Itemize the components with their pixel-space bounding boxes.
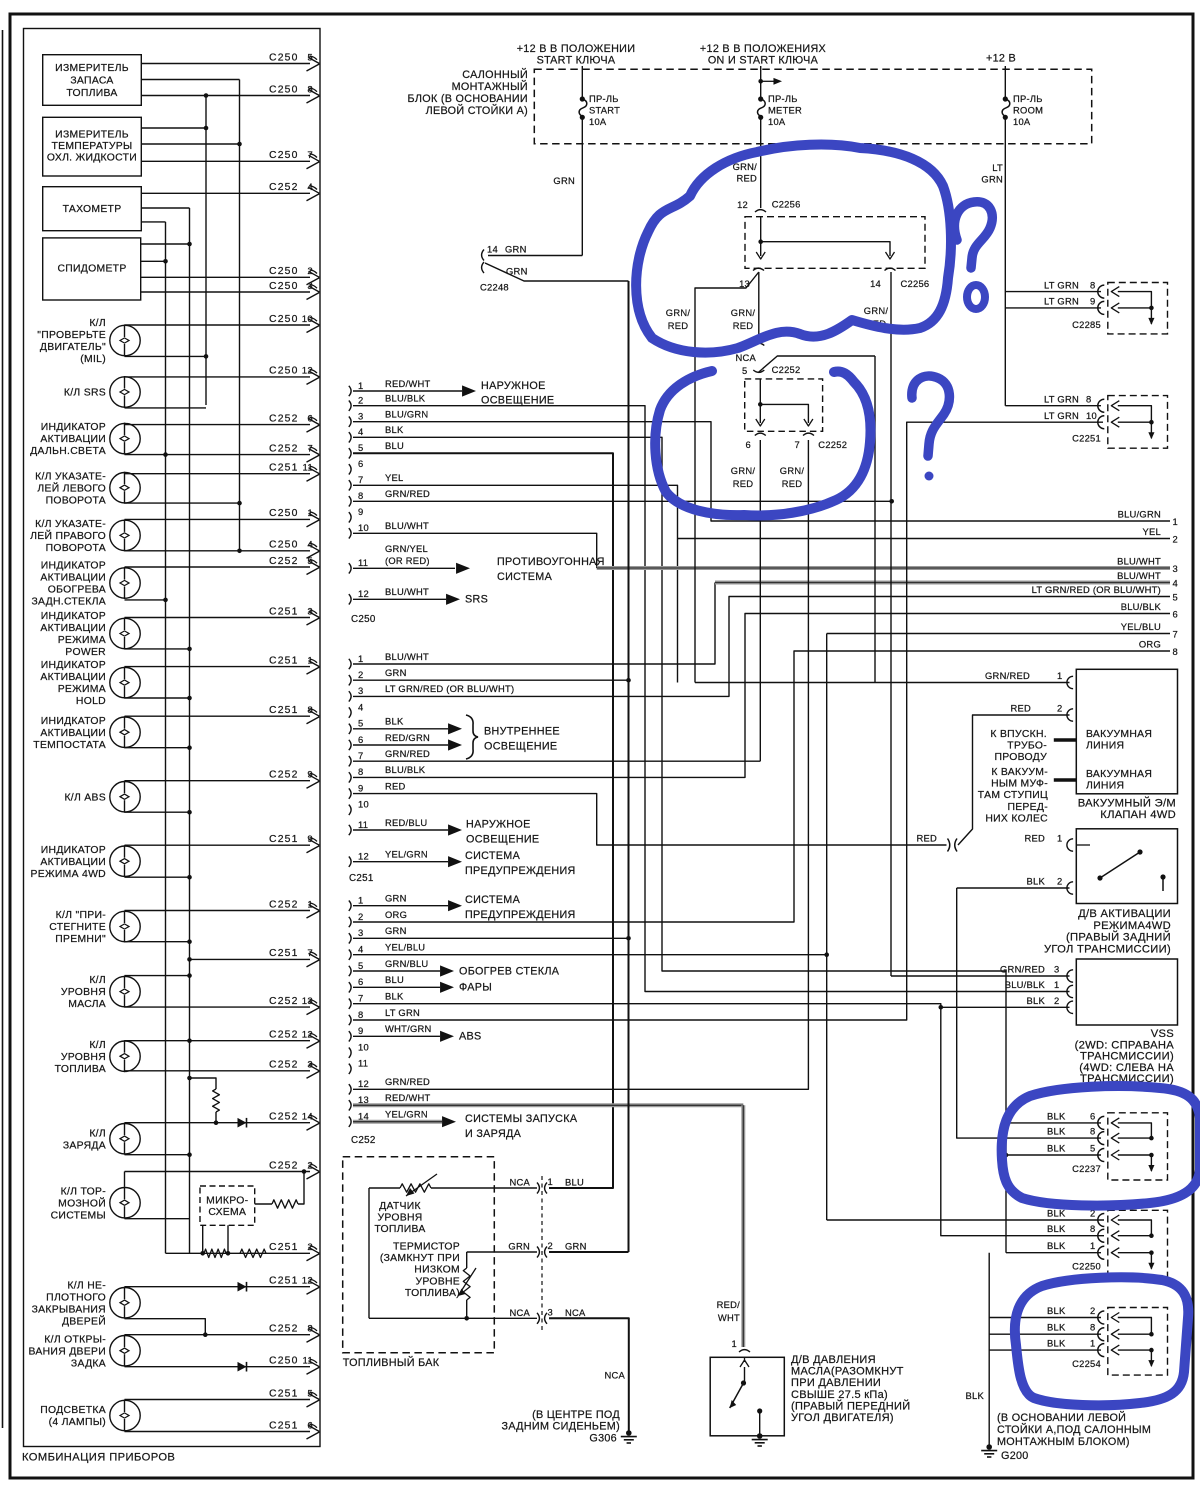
svg-text:RED: RED — [1024, 833, 1045, 844]
svg-text:1: 1 — [358, 653, 363, 664]
vertical BLK to C2250 pin8 — [941, 1007, 1104, 1235]
connector pin C250-9 — [349, 512, 351, 522]
svg-text:C2237: C2237 — [1072, 1163, 1101, 1174]
svg-text:(В ОСНОВАНИИ ЛЕВОЙ: (В ОСНОВАНИИ ЛЕВОЙ — [997, 1411, 1126, 1424]
svg-text:МОНТАЖНЫЙ: МОНТАЖНЫЙ — [452, 80, 528, 93]
svg-text:ЗАКРЫВАНИЯ: ЗАКРЫВАНИЯ — [32, 1304, 106, 1315]
svg-text:+12 В В ПОЛОЖЕНИИ: +12 В В ПОЛОЖЕНИИ — [517, 43, 636, 55]
splice RED — [948, 839, 950, 852]
svg-text:ТРУБО-: ТРУБО- — [1007, 741, 1047, 752]
svg-text:+12 В: +12 В — [986, 53, 1016, 65]
VSS pin1 BLU/BLK — [1067, 985, 1073, 997]
wire C2252 pin7 GRN/RED down — [807, 440, 809, 441]
svg-text:12: 12 — [302, 366, 313, 377]
svg-text:ИНДИКАТОР: ИНДИКАТОР — [41, 611, 106, 622]
wire C2250 pin2 from vertical — [827, 1219, 1104, 1221]
svg-text:МОЗНОЙ: МОЗНОЙ — [58, 1196, 106, 1209]
svg-text:2: 2 — [358, 669, 363, 680]
vacuum solenoid pin2 RED — [1067, 709, 1073, 721]
wire C252-9 ABS — [353, 1035, 440, 1037]
svg-text:GRN: GRN — [385, 667, 407, 678]
wire illumination bottom pin C251-6 — [125, 1431, 311, 1433]
svg-text:GRN: GRN — [385, 925, 407, 936]
connector pin C252-3 — [349, 933, 351, 943]
fuse PR-L ROOM 10A — [1004, 66, 1006, 99]
svg-text:C2250: C2250 — [1072, 1261, 1101, 1272]
wire oil-level bottom pin C252-13 — [125, 1006, 311, 1008]
svg-text:(ПРАВЫЙ ПЕРЕДНИЙ: (ПРАВЫЙ ПЕРЕДНИЙ — [791, 1399, 910, 1412]
wire right row2 YEL — [678, 538, 1171, 540]
svg-text:ТОПЛИВА): ТОПЛИВА) — [405, 1288, 460, 1299]
svg-text:ТРАНСМИССИИ): ТРАНСМИССИИ) — [1080, 1051, 1174, 1063]
svg-text:ТОПЛИВА: ТОПЛИВА — [374, 1224, 425, 1235]
C2256 internal arrows — [760, 217, 762, 256]
lamp charge — [110, 1124, 140, 1154]
svg-text:C2254: C2254 — [1072, 1358, 1101, 1369]
svg-text:(4 ЛАМПЫ): (4 ЛАМПЫ) — [49, 1417, 106, 1428]
svg-text:C252: C252 — [269, 443, 299, 454]
4WD switch box — [1076, 829, 1177, 904]
svg-text:СХЕМА: СХЕМА — [208, 1207, 246, 1218]
charge resistor branch from bus B — [187, 1076, 192, 1081]
svg-text:YEL: YEL — [385, 472, 403, 483]
dashed box C2256 — [745, 217, 925, 269]
wire defogger bottom to bus A — [125, 599, 166, 601]
svg-text:ПРОВОДУ: ПРОВОДУ — [994, 752, 1047, 763]
wire HOLD top pin C251-1 — [125, 666, 311, 668]
connector pin C251-1 — [349, 659, 351, 669]
svg-text:1: 1 — [358, 380, 363, 391]
connector C2248 pin14 — [482, 250, 484, 261]
fuel tank GRN wire — [467, 1251, 537, 1253]
wire C252-5 defogger — [353, 970, 440, 972]
wire C252-4 YEL/BLU to right row7 — [353, 954, 827, 956]
svg-text:СИСТЕМА: СИСТЕМА — [465, 850, 521, 862]
svg-text:NCA: NCA — [509, 1307, 530, 1318]
wire C251-1 BLU/WHT to right row4 — [353, 583, 715, 665]
svg-text:C250: C250 — [269, 52, 299, 63]
svg-text:НИЗКОМ: НИЗКОМ — [414, 1265, 460, 1276]
svg-text:ВАНИЯ ДВЕРИ: ВАНИЯ ДВЕРИ — [29, 1346, 106, 1357]
svg-text:LT GRN/RED (OR BLU/WHT): LT GRN/RED (OR BLU/WHT) — [1032, 584, 1161, 595]
connector pin C251-11 — [349, 825, 351, 835]
svg-text:7: 7 — [1173, 629, 1178, 640]
svg-text:К/Л УКАЗАТЕ-: К/Л УКАЗАТЕ- — [35, 519, 106, 530]
svg-text:C251: C251 — [269, 1420, 299, 1431]
svg-text:Д/В АКТИВАЦИИ: Д/В АКТИВАЦИИ — [1078, 908, 1171, 920]
resistor network row C251-2 — [166, 1252, 311, 1254]
dashed box C2285 — [1108, 283, 1168, 334]
svg-text:10: 10 — [358, 1042, 369, 1053]
wire MIL bottom to bus C — [125, 355, 207, 357]
svg-text:BLK: BLK — [1047, 1110, 1066, 1121]
svg-text:BLU/BLK: BLU/BLK — [1121, 601, 1162, 612]
wire high-beam bottom pin C252-7 — [125, 454, 311, 456]
svg-text:6: 6 — [358, 976, 363, 987]
connector C2256 pin14 lower — [885, 268, 896, 270]
svg-text:РЕЖИМА4WD: РЕЖИМА4WD — [1093, 920, 1171, 932]
svg-text:ВАКУУМНАЯ: ВАКУУМНАЯ — [1086, 729, 1152, 740]
wire illumination top pin C251-5 — [125, 1399, 311, 1401]
svg-text:C252: C252 — [269, 1030, 299, 1041]
svg-text:BLU: BLU — [565, 1177, 584, 1188]
fuel tank dashed box — [343, 1157, 495, 1353]
cluster bus C — [205, 96, 207, 406]
svg-text:BLK: BLK — [1047, 1322, 1066, 1333]
svg-text:3: 3 — [1054, 964, 1059, 975]
svg-text:1: 1 — [1090, 1338, 1095, 1349]
wire MIL top pin C250-10 — [125, 324, 311, 326]
svg-text:К/Л: К/Л — [89, 1128, 106, 1139]
svg-text:(4WD: СЛЕВА НА: (4WD: СЛЕВА НА — [1079, 1062, 1174, 1074]
wire C251-7 GRN/RED to C2252 pin6 — [353, 760, 760, 762]
wire C252-14 starting and charging systems — [353, 1120, 442, 1124]
svg-text:СПИДОМЕТР: СПИДОМЕТР — [57, 264, 126, 275]
wire C250-10 BLU/WHT to right row3 — [353, 533, 597, 568]
cluster bus D — [239, 80, 241, 551]
ground G200 — [986, 1444, 992, 1450]
svg-text:3: 3 — [358, 927, 363, 938]
svg-text:RED: RED — [1010, 703, 1031, 714]
svg-text:BLU: BLU — [385, 440, 404, 451]
svg-text:C251: C251 — [269, 655, 299, 666]
svg-text:САЛОННЫЙ: САЛОННЫЙ — [462, 68, 528, 81]
blue question mark 2 — [912, 376, 950, 456]
svg-text:НАРУЖНОЕ: НАРУЖНОЕ — [466, 819, 531, 831]
wire C252-13 RED/WHT shielded to oil pressure switch — [353, 1103, 743, 1107]
svg-text:10: 10 — [1086, 410, 1097, 421]
wire seatbelt top pin C252-1 — [125, 910, 311, 912]
svg-text:ДАТЧИК: ДАТЧИК — [379, 1201, 421, 1212]
wire ROOM to C2285 row8 — [1005, 291, 1101, 293]
svg-text:ОСВЕЩЕНИЕ: ОСВЕЩЕНИЕ — [481, 395, 554, 407]
blue dot 2 — [925, 472, 934, 481]
svg-text:GRN/BLU: GRN/BLU — [385, 958, 428, 969]
fuse PR-L START 10A — [581, 66, 583, 99]
wire temp gauge to bus D — [141, 143, 239, 145]
svg-text:ЗАДН.СТЕКЛА: ЗАДН.СТЕКЛА — [31, 597, 106, 608]
svg-text:BLK: BLK — [1047, 1240, 1066, 1251]
svg-text:(OR RED): (OR RED) — [385, 555, 430, 566]
svg-text:LT GRN: LT GRN — [1044, 393, 1079, 404]
svg-text:К/Л НЕ-: К/Л НЕ- — [67, 1280, 106, 1291]
cluster bus B — [189, 208, 191, 1253]
connector pin C252-6 — [349, 982, 351, 992]
svg-text:C251: C251 — [269, 948, 299, 959]
svg-text:ПОВОРОТА: ПОВОРОТА — [46, 495, 106, 506]
connector pin C252-13 — [349, 1100, 351, 1110]
wire C250-8 GRN/RED — [353, 500, 892, 502]
right row3 BLU/WHT shielded — [597, 566, 1170, 570]
connector pin C250-8 — [349, 496, 351, 506]
wire fuel-level bottom pin C252-3 — [125, 1070, 311, 1072]
connector pin C252-1 — [349, 901, 351, 911]
wire C250-12 to SRS — [353, 598, 446, 600]
svg-text:ПРИ ДАВЛЕНИИ: ПРИ ДАВЛЕНИИ — [791, 1377, 881, 1389]
svg-text:RED: RED — [668, 320, 689, 331]
wire SRS bottom to bus C — [125, 407, 207, 409]
svg-text:C251: C251 — [269, 834, 299, 845]
svg-text:МАСЛА(РАЗОМКНУТ: МАСЛА(РАЗОМКНУТ — [791, 1366, 904, 1378]
svg-text:G200: G200 — [1001, 1450, 1029, 1462]
svg-text:ЗАРЯДА: ЗАРЯДА — [63, 1140, 106, 1151]
svg-text:ПРОТИВОУГОННАЯ: ПРОТИВОУГОННАЯ — [497, 556, 605, 568]
svg-text:BLK: BLK — [1027, 995, 1046, 1006]
svg-text:2: 2 — [358, 395, 363, 406]
connector pin C250-6 — [349, 464, 351, 474]
svg-text:GRN/: GRN/ — [864, 305, 889, 316]
svg-text:C252: C252 — [269, 1324, 299, 1335]
connector pin C250-12 — [349, 594, 351, 604]
svg-text:УГОЛ ДВИГАТЕЛЯ): УГОЛ ДВИГАТЕЛЯ) — [791, 1412, 894, 1424]
dashed box C2254 — [1108, 1308, 1168, 1376]
svg-text:К/Л: К/Л — [89, 975, 106, 986]
svg-text:GRN: GRN — [565, 1241, 587, 1252]
svg-text:+12 В В ПОЛОЖЕНИЯХ: +12 В В ПОЛОЖЕНИЯХ — [700, 43, 826, 55]
connector pin C252-2 — [349, 917, 351, 927]
svg-text:ЛЕЙ ПРАВОГО: ЛЕЙ ПРАВОГО — [30, 529, 106, 542]
svg-text:ЛИНИЯ: ЛИНИЯ — [1086, 781, 1124, 792]
wire C251-11 exterior lighting — [353, 829, 448, 831]
svg-text:BLK: BLK — [385, 991, 404, 1002]
connector pin C251-8 — [349, 772, 351, 782]
svg-text:ТОПЛИВА: ТОПЛИВА — [55, 1064, 106, 1075]
wire charge bottom to bus B — [125, 1154, 190, 1156]
fuel sender internal wiring — [368, 1188, 370, 1318]
lamp oil level — [110, 976, 140, 1006]
svg-text:8: 8 — [358, 766, 363, 777]
connector pin C250-10 — [349, 528, 351, 538]
wire tailgate top pin C252-8 — [125, 1334, 311, 1336]
junction arrow at METER wire top — [758, 79, 763, 84]
connector pin C251-9 — [349, 788, 351, 798]
svg-text:УРОВНЯ: УРОВНЯ — [61, 1052, 106, 1063]
svg-text:ПРЕДУПРЕЖДЕНИЯ: ПРЕДУПРЕЖДЕНИЯ — [465, 909, 576, 921]
svg-text:BLU/WHT: BLU/WHT — [1117, 570, 1161, 581]
svg-text:BLK: BLK — [966, 1390, 985, 1401]
wire speedo to bus A — [141, 260, 166, 262]
svg-text:12: 12 — [358, 851, 369, 862]
wire C2250 pin1 from G200 riser — [1006, 1252, 1101, 1254]
vertical YEL/BLU right row7 — [827, 633, 1170, 635]
svg-text:1: 1 — [1054, 979, 1059, 990]
microcircuit box — [200, 1186, 255, 1225]
wire door-ajar top pin C251-12 with diode — [125, 1286, 311, 1288]
svg-text:3: 3 — [1173, 563, 1178, 574]
svg-text:C252: C252 — [269, 413, 299, 424]
svg-text:C250: C250 — [351, 614, 376, 625]
svg-text:1: 1 — [1173, 516, 1178, 527]
svg-text:RED: RED — [733, 320, 754, 331]
resistor from microcircuit to C252-2 row — [255, 1203, 272, 1205]
wire charge top pin C252-14 with diode — [125, 1122, 311, 1124]
svg-text:BLK: BLK — [385, 716, 404, 727]
svg-text:К/Л УКАЗАТЕ-: К/Л УКАЗАТЕ- — [35, 471, 106, 482]
svg-text:АКТИВАЦИИ: АКТИВАЦИИ — [40, 573, 106, 584]
svg-text:C2256: C2256 — [772, 199, 801, 210]
svg-text:1: 1 — [732, 1338, 737, 1349]
svg-text:12: 12 — [302, 1030, 313, 1041]
connector pin C251-7 — [349, 756, 351, 766]
svg-text:6: 6 — [358, 458, 363, 469]
connector pin C252-5 — [349, 966, 351, 976]
svg-text:GRN/RED: GRN/RED — [1000, 964, 1045, 975]
svg-text:BLK: BLK — [1027, 876, 1046, 887]
svg-text:12: 12 — [358, 1078, 369, 1089]
wire C2252 pin6 GRN/RED down — [759, 440, 761, 761]
connector pin C252-4 — [349, 950, 351, 960]
svg-text:10: 10 — [358, 799, 369, 810]
svg-text:8: 8 — [1173, 646, 1178, 657]
svg-text:14: 14 — [487, 244, 498, 255]
wire C252-8 LT GRN to C2251 pin10 — [353, 422, 1103, 1020]
svg-text:NCA: NCA — [509, 1177, 530, 1188]
vacuum solenoid box — [1076, 669, 1177, 794]
svg-text:1: 1 — [1090, 1240, 1095, 1251]
svg-text:NCA: NCA — [565, 1307, 586, 1318]
svg-text:GRN: GRN — [981, 174, 1003, 185]
connector pin C251-3 — [349, 691, 351, 701]
svg-text:LT GRN: LT GRN — [385, 1007, 420, 1018]
svg-text:5: 5 — [358, 960, 363, 971]
svg-text:8: 8 — [1086, 393, 1091, 404]
lamp MIL check engine — [110, 325, 140, 355]
svg-text:ТАМ СТУПИЦ: ТАМ СТУПИЦ — [978, 790, 1048, 801]
svg-text:"ПРОВЕРЬТЕ: "ПРОВЕРЬТЕ — [37, 330, 106, 341]
svg-text:ОБОГРЕВ СТЕКЛА: ОБОГРЕВ СТЕКЛА — [459, 965, 560, 977]
blue oval dot 1 — [967, 285, 985, 309]
svg-text:8: 8 — [1090, 1223, 1095, 1234]
ground inside oil switch — [757, 1433, 763, 1439]
fuel tank pin3 connector — [537, 1313, 539, 1324]
svg-text:ИНИДКАТОР: ИНИДКАТОР — [41, 716, 106, 727]
svg-text:C250: C250 — [269, 150, 299, 161]
dashed connector line fuel tank — [541, 1176, 543, 1330]
svg-text:ПР-ЛЬ: ПР-ЛЬ — [768, 93, 798, 104]
lamp door ajar — [110, 1288, 140, 1318]
svg-text:ABS: ABS — [459, 1031, 482, 1043]
svg-text:C252: C252 — [269, 770, 299, 781]
svg-text:2: 2 — [1057, 703, 1062, 714]
svg-text:К ВПУСКН.: К ВПУСКН. — [990, 729, 1047, 740]
wire fuel gauge to bus D — [141, 79, 239, 81]
svg-text:ИНДИКАТОР: ИНДИКАТОР — [41, 422, 106, 433]
svg-text:МОНТАЖНЫМ БЛОКОМ): МОНТАЖНЫМ БЛОКОМ) — [997, 1436, 1130, 1448]
wire tach to bus A — [141, 221, 165, 223]
svg-text:BLK: BLK — [1047, 1338, 1066, 1349]
connector pin C252-12 — [349, 1084, 351, 1094]
svg-text:ДАЛЬН.СВЕТА: ДАЛЬН.СВЕТА — [30, 446, 106, 457]
svg-text:АКТИВАЦИИ: АКТИВАЦИИ — [40, 672, 106, 683]
lamp high beam indicator — [110, 423, 140, 453]
svg-text:7: 7 — [358, 474, 363, 485]
connector C2252 pin6 — [755, 433, 766, 435]
svg-text:К/Л SRS: К/Л SRS — [64, 388, 106, 399]
svg-text:C2252: C2252 — [818, 439, 847, 450]
wire defogger top pin C252-5 — [125, 566, 311, 568]
wire C251-3 LT GRN/RED to right row5 — [353, 597, 1170, 697]
blue ring around C2254 — [1015, 1277, 1188, 1405]
connector pin C250-4 — [349, 432, 351, 442]
svg-text:К ВАКУУМ-: К ВАКУУМ- — [991, 767, 1048, 778]
svg-text:GRN: GRN — [506, 266, 528, 277]
wire right-turn bottom pin C250-4 — [125, 550, 311, 552]
wire left-turn bottom to bus D — [125, 502, 240, 504]
svg-text:12: 12 — [358, 588, 369, 599]
svg-text:4: 4 — [358, 426, 363, 437]
svg-text:POWER: POWER — [65, 647, 106, 658]
svg-text:ИЗМЕРИТЕЛЬ: ИЗМЕРИТЕЛЬ — [55, 63, 129, 74]
blue annotation blob around C2256 — [636, 145, 951, 353]
fuel tank pin2 connector — [537, 1247, 539, 1258]
svg-text:WHT/GRN: WHT/GRN — [385, 1023, 432, 1034]
svg-text:METER: METER — [768, 105, 802, 116]
fuse PR-L METER 10A — [760, 66, 762, 99]
svg-text:Д/В ДАВЛЕНИЯ: Д/В ДАВЛЕНИЯ — [791, 1354, 876, 1366]
svg-text:C250: C250 — [269, 366, 299, 377]
svg-text:РЕЖИМА: РЕЖИМА — [58, 635, 106, 646]
svg-text:ВАКУУМНАЯ: ВАКУУМНАЯ — [1086, 769, 1152, 780]
svg-text:RED/GRN: RED/GRN — [385, 732, 430, 743]
blue ring around C2237 — [1002, 1086, 1200, 1205]
svg-text:C252: C252 — [269, 1060, 299, 1071]
G200 ground riser BLK — [988, 1253, 990, 1445]
svg-text:C250: C250 — [269, 84, 299, 95]
svg-text:GRN/: GRN/ — [731, 307, 756, 318]
wire bus B pin C252-12 and fuel lamp top — [125, 1040, 311, 1042]
svg-text:YEL/GRN: YEL/GRN — [385, 1109, 428, 1120]
svg-text:C252: C252 — [269, 182, 299, 193]
svg-text:GRN/RED: GRN/RED — [385, 1076, 430, 1087]
svg-text:ИНДИКАТОР: ИНДИКАТОР — [41, 660, 106, 671]
svg-text:C250: C250 — [269, 1356, 299, 1367]
connector C2256 pin13 — [753, 268, 764, 270]
svg-text:1: 1 — [548, 1176, 553, 1187]
svg-text:GRN/YEL: GRN/YEL — [385, 543, 428, 554]
svg-text:GRN/: GRN/ — [666, 307, 691, 318]
svg-text:ВАКУУМНЫЙ Э/М: ВАКУУМНЫЙ Э/М — [1078, 797, 1176, 810]
svg-text:К/Л "ПРИ-: К/Л "ПРИ- — [56, 910, 106, 921]
svg-text:YEL/BLU: YEL/BLU — [385, 942, 425, 953]
connector pin C250-5 — [349, 448, 351, 458]
svg-text:2: 2 — [1090, 1305, 1095, 1316]
svg-text:10: 10 — [302, 314, 313, 325]
svg-text:GRN/: GRN/ — [731, 465, 756, 476]
svg-text:ORG: ORG — [385, 909, 407, 920]
svg-text:5: 5 — [742, 365, 747, 376]
svg-text:РЕЖИМА: РЕЖИМА — [58, 684, 106, 695]
wire C2256 pin14 GRN/RED down — [890, 272, 892, 976]
right row4 BLU/WHT shielded — [715, 581, 1170, 585]
wire 4WD top pin C251-9 — [125, 844, 311, 846]
svg-text:BLK: BLK — [1047, 1126, 1066, 1137]
svg-text:C2256: C2256 — [901, 278, 930, 289]
svg-text:ОБОГРЕВА: ОБОГРЕВА — [48, 585, 106, 596]
svg-text:C250: C250 — [269, 266, 299, 277]
svg-text:RED: RED — [782, 478, 803, 489]
svg-text:9: 9 — [358, 782, 363, 793]
connector pin C251-12 — [349, 857, 351, 867]
wire brake top pin C252-2 — [125, 1171, 311, 1173]
fuel tank NCA wire to G306 — [549, 1318, 629, 1432]
svg-text:СИСТЕМЫ: СИСТЕМЫ — [51, 1210, 106, 1221]
C2251 ground arrow — [1150, 422, 1152, 438]
svg-text:ЗАПАСА: ЗАПАСА — [70, 76, 113, 87]
svg-text:C250: C250 — [269, 281, 299, 292]
connector pin C251-4 — [349, 707, 351, 717]
svg-text:6: 6 — [1090, 1110, 1095, 1121]
connector pin C250-7 — [349, 480, 351, 490]
